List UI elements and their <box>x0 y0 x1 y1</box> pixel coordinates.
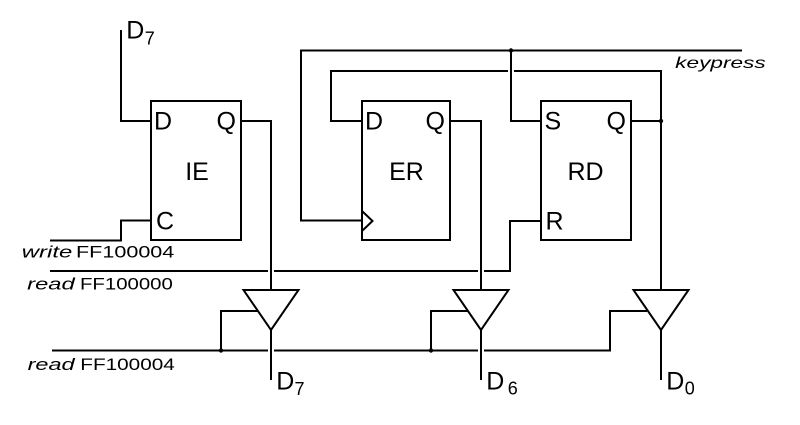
svg-text:6: 6 <box>508 379 518 399</box>
svg-text:7: 7 <box>295 379 305 399</box>
svg-text:Q: Q <box>607 108 626 136</box>
svg-text:D: D <box>126 17 144 45</box>
svg-text:FF100004: FF100004 <box>76 242 174 261</box>
svg-text:Q: Q <box>426 108 445 136</box>
svg-text:R: R <box>546 208 564 236</box>
svg-text:FF100004: FF100004 <box>80 355 175 374</box>
svg-text:D: D <box>154 108 172 136</box>
svg-text:keypress: keypress <box>675 55 766 72</box>
svg-text:C: C <box>156 208 174 236</box>
svg-text:FF100000: FF100000 <box>80 274 173 293</box>
svg-text:S: S <box>545 108 562 136</box>
svg-text:RD: RD <box>567 158 603 186</box>
svg-text:Q: Q <box>217 108 236 136</box>
svg-text:7: 7 <box>145 29 155 49</box>
svg-text:read: read <box>27 274 75 293</box>
svg-text:read: read <box>28 355 76 374</box>
svg-text:D: D <box>666 368 684 396</box>
svg-text:D: D <box>276 368 294 396</box>
svg-text:ER: ER <box>389 158 424 186</box>
svg-text:IE: IE <box>185 158 209 186</box>
svg-text:D: D <box>365 108 383 136</box>
svg-text:D: D <box>486 368 504 396</box>
svg-text:0: 0 <box>685 379 695 399</box>
svg-text:write: write <box>22 242 73 261</box>
